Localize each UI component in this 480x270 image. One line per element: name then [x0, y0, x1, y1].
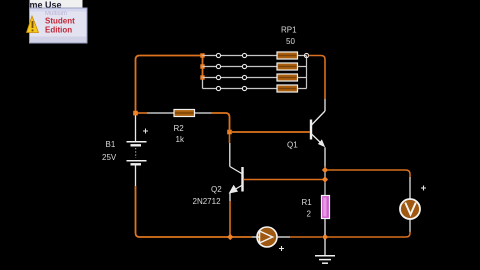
transistor Q1 [311, 111, 325, 166]
dialog text [45, 17, 75, 35]
svg-text:50: 50 [286, 37, 295, 46]
node: junction at 229.5,132 [227, 130, 232, 135]
svg-text:Edition: Edition [45, 26, 72, 35]
wire: bottom left loop [136, 186, 253, 237]
battery B1 [127, 115, 149, 186]
wire: R2 to Q1/Q2 base junction [212, 113, 230, 132]
wire: junction down to Q2 collector [229, 134, 231, 143]
node: emitter/voltmeter junction [322, 167, 328, 173]
svg-text:Q2: Q2 [211, 185, 222, 194]
svg-text:25V: 25V [102, 153, 117, 162]
wire: RP1 right common [298, 53, 309, 88]
wire: Q2 emitter down [229, 201, 231, 235]
svg-text:2: 2 [307, 210, 312, 219]
wire: ammeter left lead [252, 236, 257, 238]
ground [315, 239, 335, 263]
title strip "me Use" [30, 0, 83, 10]
svg-text:RP1: RP1 [281, 26, 297, 35]
switch row 4 [203, 86, 278, 90]
node: Q2 base junction [322, 176, 328, 182]
transistor Q2 (mirrored) [229, 167, 243, 202]
switch row 1 [203, 53, 278, 57]
node: bus junction row1 [200, 53, 204, 57]
wire: battery top to RP1 bus (left loop top) [136, 56, 203, 116]
wire: ammeter to R1/ground junction [290, 236, 322, 238]
wire: ammeter right lead [277, 236, 290, 238]
wire: R1 bottom lead [324, 219, 326, 236]
wire: RP1 to Q1 collector [309, 56, 325, 100]
wire: junction to voltmeter top [327, 169, 406, 171]
resistor pack RP1 [277, 52, 298, 92]
wire: Q2 base to right column [244, 179, 323, 181]
svg-text:Student: Student [45, 17, 75, 26]
wire: R2 net to Q1 base [232, 131, 310, 133]
node: battery top junction [133, 111, 138, 116]
wire: R2 right lead [195, 112, 212, 114]
svg-text:R1: R1 [302, 198, 313, 207]
resistor R1 [322, 196, 330, 219]
wire: junction to voltmeter bottom [327, 236, 402, 238]
resistor R2 [174, 110, 195, 117]
svg-text:B1: B1 [106, 140, 116, 149]
wire: Q1 collector lead [324, 99, 326, 111]
svg-text:Q1: Q1 [287, 141, 298, 150]
node: bus junction row2 [200, 64, 204, 68]
wire: RP1 left bus vertical [202, 56, 204, 78]
wire: bus to row4 (white segment) [202, 78, 204, 89]
node: R1 bottom junction [322, 234, 328, 240]
switch row 2 [203, 64, 278, 68]
node: emitter/bottom junction [227, 234, 233, 240]
wire: Q2 collector lead [229, 143, 231, 167]
ammeter A [257, 227, 284, 251]
wire: R2 left lead [147, 112, 174, 114]
wire: battery to R2 [138, 112, 148, 114]
switch row 3 [203, 75, 278, 79]
wire: Q1 emitter column junction dots [324, 166, 326, 196]
svg-text:1k: 1k [176, 135, 185, 144]
voltmeter V [400, 186, 426, 220]
warning triangle icon [27, 16, 39, 33]
svg-text:R2: R2 [174, 124, 185, 133]
node: bus junction row3 [200, 75, 204, 79]
svg-text:2N2712: 2N2712 [193, 197, 222, 206]
Student Edition dialog [30, 8, 88, 43]
